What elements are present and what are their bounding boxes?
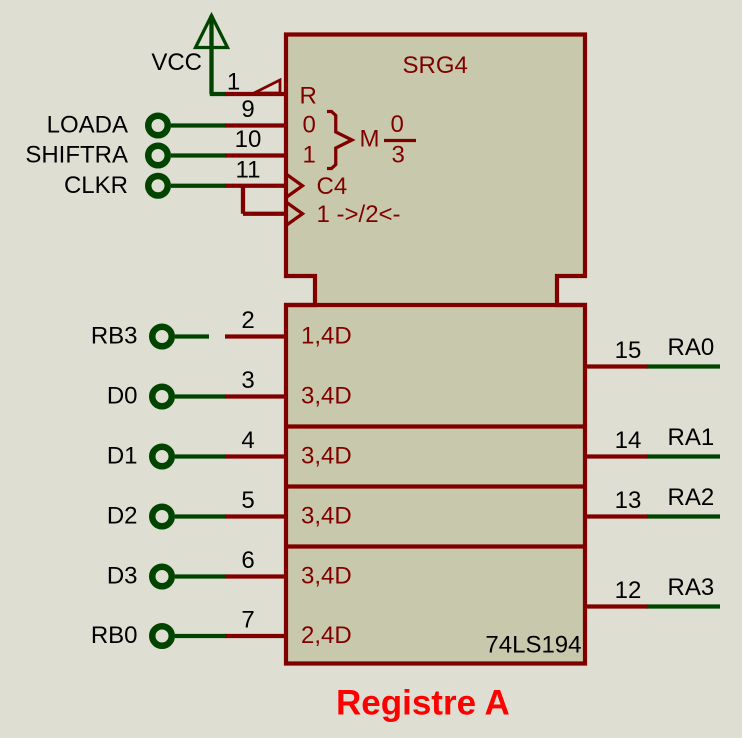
svg-text:1: 1	[303, 142, 316, 169]
svg-text:2,4D: 2,4D	[301, 622, 352, 649]
wire branch pin 11 horizontal	[243, 212, 288, 216]
svg-text:RA1: RA1	[668, 424, 715, 451]
svg-text:4: 4	[241, 427, 254, 454]
svg-text:74LS194: 74LS194	[485, 632, 581, 659]
svg-text:SHIFTRA: SHIFTRA	[25, 142, 128, 169]
clock chevron C4	[286, 174, 303, 198]
fraction bar	[384, 139, 416, 142]
section divider (neck bottom)	[284, 303, 587, 307]
svg-text:1 ->/2<-: 1 ->/2<-	[317, 201, 401, 228]
IC U1 74LS194 body outline	[286, 35, 585, 664]
pin stub 15 (red)	[584, 364, 648, 368]
pin stub 9 (red)	[225, 123, 288, 127]
svg-text:RA0: RA0	[668, 334, 715, 361]
pin stub 4 (red)	[225, 454, 288, 458]
pin stub 2 (red)	[225, 334, 288, 338]
svg-text:3: 3	[241, 367, 254, 394]
section divider 3	[284, 544, 587, 548]
terminal LOADA	[148, 116, 168, 136]
pin stub 11 (red)	[225, 184, 288, 188]
wire VCC to pin 1 (green)	[210, 92, 226, 96]
wire D3 (green)	[175, 574, 226, 578]
svg-text:5: 5	[241, 487, 254, 514]
pin stub 7 (red)	[225, 634, 288, 638]
wire SHIFTRA (green)	[171, 153, 226, 157]
wire RB3 (green, short)	[175, 334, 209, 338]
svg-text:9: 9	[241, 96, 254, 123]
terminal D3	[152, 567, 172, 587]
terminal CLKR	[148, 176, 168, 196]
wire VCC vertical	[209, 16, 213, 95]
terminal SHIFTRA	[148, 146, 168, 166]
terminal D1	[152, 447, 172, 467]
svg-text:RB0: RB0	[91, 622, 138, 649]
svg-text:0: 0	[303, 112, 316, 139]
svg-text:D1: D1	[107, 443, 138, 470]
pin stub 12 (red)	[584, 604, 648, 608]
brace M group	[327, 112, 352, 169]
pin stub 10 (red)	[225, 153, 288, 157]
pin stub 6 (red)	[225, 574, 288, 578]
wire branch pin 11 vertical	[241, 184, 245, 214]
svg-text:14: 14	[615, 427, 642, 454]
svg-text:M: M	[360, 126, 380, 153]
wire D0 (green)	[175, 394, 226, 398]
terminal RB0	[152, 626, 172, 646]
svg-text:11: 11	[236, 156, 261, 183]
svg-text:7: 7	[241, 607, 254, 634]
svg-text:3,4D: 3,4D	[301, 503, 352, 530]
svg-text:1,4D: 1,4D	[301, 323, 352, 350]
wire D2 (green)	[175, 514, 226, 518]
svg-text:RA2: RA2	[668, 484, 715, 511]
svg-text:CLKR: CLKR	[64, 172, 128, 199]
power symbol VCC arrow	[196, 16, 228, 48]
svg-text:1: 1	[227, 69, 240, 96]
wire RA2 (green)	[647, 514, 720, 518]
svg-text:C4: C4	[317, 173, 348, 200]
svg-text:VCC: VCC	[151, 49, 202, 76]
pin stub 1 (red)	[225, 92, 288, 96]
wire RB0 (green)	[175, 634, 226, 638]
wire RA1 (green)	[647, 454, 720, 458]
pin 1 polarity flag	[254, 80, 280, 93]
svg-text:2: 2	[241, 307, 254, 334]
terminal D2	[152, 507, 172, 527]
wire D1 (green)	[175, 454, 226, 458]
svg-text:3: 3	[392, 142, 405, 169]
svg-text:12: 12	[615, 577, 642, 604]
svg-text:D0: D0	[107, 383, 138, 410]
svg-text:0: 0	[391, 111, 404, 138]
wire CLKR (green)	[171, 184, 226, 188]
svg-text:SRG4: SRG4	[403, 52, 468, 79]
svg-text:3,4D: 3,4D	[301, 443, 352, 470]
svg-text:10: 10	[235, 126, 262, 153]
svg-text:R: R	[300, 83, 317, 110]
terminal D0	[152, 387, 172, 407]
wire LOADA (green)	[171, 123, 226, 127]
pin stub 14 (red)	[584, 454, 648, 458]
svg-text:D3: D3	[107, 563, 138, 590]
svg-text:RB3: RB3	[91, 323, 138, 350]
wire RA3 (green)	[647, 604, 720, 608]
wire RA0 (green)	[647, 364, 720, 368]
pin stub 13 (red)	[584, 514, 648, 518]
svg-text:3,4D: 3,4D	[301, 563, 352, 590]
svg-text:RA3: RA3	[668, 574, 715, 601]
section divider 1	[284, 424, 587, 428]
svg-text:D2: D2	[107, 503, 138, 530]
svg-text:15: 15	[615, 337, 642, 364]
svg-text:6: 6	[241, 547, 254, 574]
terminal RB3	[152, 327, 172, 347]
clock chevron shift row	[286, 202, 303, 226]
section divider 2	[284, 484, 587, 488]
svg-text:LOADA: LOADA	[47, 112, 128, 139]
svg-text:Registre A: Registre A	[336, 684, 510, 723]
pin stub 3 (red)	[225, 394, 288, 398]
svg-text:3,4D: 3,4D	[301, 383, 352, 410]
svg-text:13: 13	[615, 487, 642, 514]
pin stub 5 (red)	[225, 514, 288, 518]
